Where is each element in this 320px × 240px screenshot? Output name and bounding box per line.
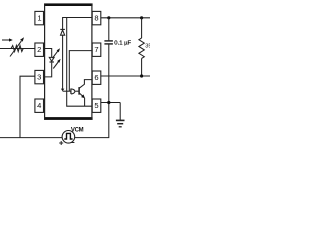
pin 6	[92, 71, 101, 84]
photodiode D2	[60, 17, 65, 91]
svg-text:35: 35	[145, 43, 150, 49]
svg-text:7: 7	[94, 45, 98, 54]
input current arrow	[2, 38, 13, 41]
wire pin2 internal to LED	[45, 49, 52, 58]
svg-text:8: 8	[94, 14, 98, 23]
node dot RL-out	[140, 74, 143, 77]
pin 3	[35, 70, 44, 83]
svg-text:3: 3	[37, 73, 41, 82]
ground	[116, 103, 125, 127]
svg-text:4: 4	[37, 101, 41, 110]
pin 5	[92, 99, 101, 112]
pin 4	[35, 99, 44, 112]
pin 1	[35, 11, 44, 24]
pin 2	[35, 43, 44, 56]
wire input to pin 2	[0, 48, 35, 50]
bottom rail wire	[0, 137, 62, 139]
wire photodiode top to pin 8	[63, 17, 93, 19]
svg-text:0.1 µF: 0.1 µF	[114, 41, 131, 47]
output rail from pin 6	[101, 75, 150, 77]
wire LED cathode to pin 3	[45, 63, 52, 77]
pin 8	[92, 11, 101, 24]
shield line to pin 5	[67, 18, 93, 107]
wire pin 5 to ground	[101, 102, 120, 104]
node dot pin5	[107, 101, 110, 104]
node dot cap-Vcc	[107, 16, 110, 19]
svg-text:VCM: VCM	[71, 127, 84, 133]
svg-text:6: 6	[94, 73, 98, 82]
Vcc rail from pin 8	[101, 17, 150, 19]
wire VCM to pin5 node	[75, 103, 109, 138]
node dot RL-Vcc	[140, 16, 143, 19]
wire pin 3 to bottom rail	[20, 76, 35, 137]
source VCM	[59, 127, 83, 145]
LED D1	[49, 57, 54, 62]
svg-text:5: 5	[94, 101, 98, 110]
svg-text:1: 1	[37, 14, 41, 23]
base line node	[63, 90, 80, 92]
resistor RL	[139, 18, 152, 76]
capacitor C1	[104, 18, 131, 103]
LED emission arrows	[52, 48, 60, 68]
diode D3 at base	[71, 89, 75, 94]
wire base to pin 7	[69, 51, 92, 92]
IC U1 body	[44, 3, 93, 120]
transistor Q1	[79, 80, 92, 107]
pin 7	[92, 43, 101, 56]
variable resistor R1	[10, 37, 24, 56]
svg-text:2: 2	[37, 45, 41, 54]
